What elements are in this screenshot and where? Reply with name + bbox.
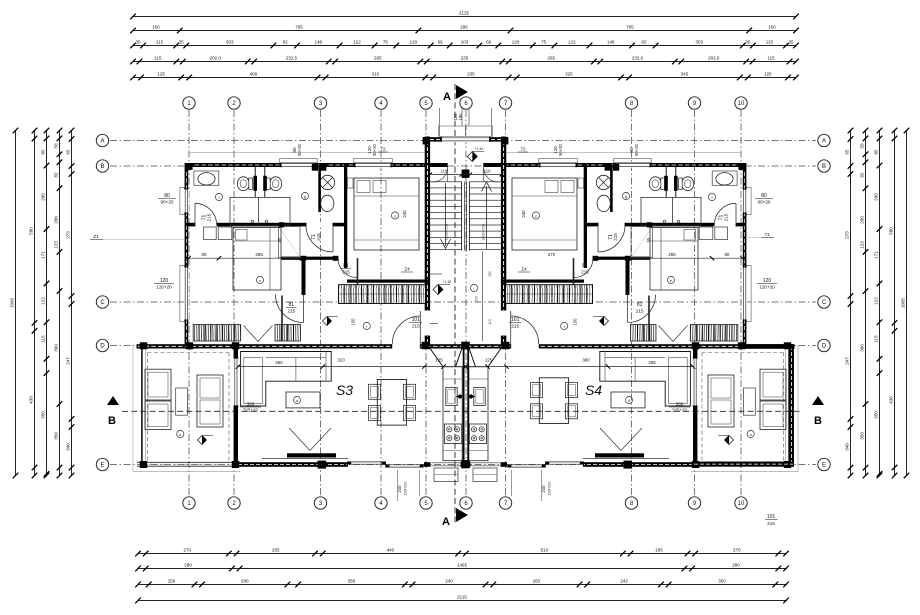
grid axis 3 top circle <box>314 97 326 109</box>
terrace lounge bench <box>197 375 223 427</box>
svg-text:81: 81 <box>637 302 643 308</box>
window left wall upper 80/90+20 <box>184 189 189 213</box>
dimension line top row5 <box>133 77 796 79</box>
terrace bottom wall thin <box>137 461 238 463</box>
grid axis A left circle <box>96 134 108 146</box>
svg-text:110: 110 <box>484 169 491 174</box>
door leaf and swing apartment entry <box>419 311 421 344</box>
svg-text:120+20: 120+20 <box>547 482 552 496</box>
svg-text:303: 303 <box>695 40 703 45</box>
window left wall lower 120/120+20 <box>184 267 189 320</box>
svg-text:35: 35 <box>179 40 185 45</box>
svg-text:C: C <box>100 300 105 306</box>
cistern left black <box>253 176 257 191</box>
wall vestibule (grid B through tower) <box>429 163 448 167</box>
svg-text:115: 115 <box>41 335 46 343</box>
svg-text:765: 765 <box>626 25 634 30</box>
terrace right top wall <box>740 344 794 349</box>
cistern right black <box>263 176 267 191</box>
room circled letter terrace right <box>747 430 754 437</box>
svg-text:D: D <box>100 344 105 350</box>
kitchen stove 4 burners <box>445 424 462 444</box>
svg-text:265: 265 <box>548 56 556 61</box>
kitchen counter strip <box>443 367 462 461</box>
column bottom divider <box>232 461 239 468</box>
svg-text:120+20: 120+20 <box>403 482 408 496</box>
dimension line left row2 <box>34 131 36 476</box>
svg-text:120: 120 <box>160 278 169 284</box>
svg-text:101: 101 <box>511 317 520 323</box>
svg-text:295: 295 <box>460 25 468 30</box>
dining table set S3 <box>377 380 406 426</box>
window top wall W2 120/90+20 <box>355 162 391 167</box>
wall bathroom3 west <box>318 165 321 212</box>
svg-text:325+20: 325+20 <box>243 408 258 413</box>
svg-text:273: 273 <box>66 231 71 239</box>
svg-text:81: 81 <box>343 263 349 269</box>
grid axis E right circle <box>818 458 830 470</box>
room circled letter bedroom1 left <box>391 212 398 219</box>
svg-text:350: 350 <box>860 432 865 440</box>
svg-text:255: 255 <box>648 360 656 365</box>
dimension line bottom row1 <box>138 553 786 555</box>
column bottom wall grid 3 <box>318 461 327 469</box>
sink counter bathroom1 <box>194 171 219 185</box>
svg-text:215: 215 <box>636 309 644 314</box>
column corridor wall east <box>333 256 339 261</box>
svg-text:103: 103 <box>461 40 469 45</box>
svg-text:303: 303 <box>226 40 234 45</box>
room circled letter bathroom1 left <box>215 193 222 200</box>
svg-text:B: B <box>108 415 116 427</box>
grid axis 3 vertical dash-dot line <box>320 110 322 496</box>
sliding glass door terrace divider <box>233 358 238 406</box>
svg-text:115: 115 <box>154 56 162 61</box>
grid axis E left circle <box>96 458 108 470</box>
svg-text:82: 82 <box>283 40 289 45</box>
window sill top wall W1 <box>280 159 318 163</box>
grid axis 9 top circle <box>688 97 700 109</box>
svg-text:340: 340 <box>845 443 850 451</box>
shower stalls back-to-back <box>230 197 290 225</box>
svg-text:247: 247 <box>845 357 850 365</box>
svg-text:+1,38: +1,38 <box>443 280 451 284</box>
shower head symbol bathroom3 <box>320 175 334 189</box>
grid axis 9 bottom circle <box>688 497 700 509</box>
dimension line right total 1095 <box>906 131 908 476</box>
grid axis 6 bottom circle <box>460 497 472 509</box>
svg-text:g: g <box>625 194 627 199</box>
svg-text:g: g <box>304 194 306 199</box>
svg-text:171: 171 <box>41 251 46 259</box>
svg-text:2125: 2125 <box>459 11 470 16</box>
closet 55 under bathroom2 <box>279 227 301 258</box>
eaves line above top wall <box>190 152 425 154</box>
svg-text:310: 310 <box>337 357 345 362</box>
window sill left wall lower <box>180 265 185 321</box>
wall bedroom1 bottom <box>347 280 430 283</box>
extension lines below bottom wall <box>397 470 399 501</box>
svg-text:215: 215 <box>316 233 321 241</box>
grid axis 5 top circle <box>420 97 432 109</box>
terrace left wall thin <box>141 345 143 466</box>
door gap bathroom3 <box>306 222 333 227</box>
svg-text:360: 360 <box>54 344 59 352</box>
stair stringer center walls <box>461 182 463 251</box>
svg-text:148: 148 <box>314 40 322 45</box>
column grid D axis2 <box>232 342 239 349</box>
stair hall partition line <box>482 251 484 341</box>
svg-text:75: 75 <box>383 40 389 45</box>
room circled letter bathroom2 right <box>622 192 629 199</box>
grid axis C left circle <box>96 296 108 308</box>
bedroom2 diamond level marker <box>323 317 332 326</box>
column bathroom wall end <box>279 222 284 227</box>
svg-text:50: 50 <box>54 143 59 149</box>
dimension line bottom row3 <box>138 584 786 586</box>
svg-text:580: 580 <box>29 227 34 235</box>
svg-text:+1,46: +1,46 <box>475 147 484 151</box>
svg-text:1465: 1465 <box>457 563 468 568</box>
section marker B right <box>812 396 824 405</box>
grid axis 10 bottom circle <box>735 497 747 509</box>
wall grid D (half) <box>137 344 467 348</box>
svg-text:180: 180 <box>458 113 463 121</box>
column bottom center <box>462 460 470 468</box>
svg-text:81: 81 <box>582 263 588 269</box>
grid axis 1 top circle <box>183 97 195 109</box>
svg-text:90+20: 90+20 <box>297 143 302 155</box>
svg-text:90+20: 90+20 <box>558 143 563 155</box>
svg-text:270: 270 <box>548 252 556 257</box>
svg-text:122: 122 <box>41 297 46 305</box>
svg-text:90+20: 90+20 <box>372 143 377 155</box>
grid axis 2 bottom circle <box>228 497 240 509</box>
svg-text:215: 215 <box>511 324 519 329</box>
door gap stair hall left wall <box>424 310 430 336</box>
svg-text:c: c <box>535 213 537 218</box>
svg-text:240: 240 <box>402 210 407 218</box>
svg-text:i: i <box>474 286 475 291</box>
column corridor wall west <box>301 256 306 261</box>
stair treads left flight <box>429 181 462 183</box>
dimension line bottom total 2115 <box>138 600 786 602</box>
svg-text:150: 150 <box>768 25 776 30</box>
column grid D terrace corner <box>140 342 147 349</box>
grid axis 6 vertical dash-dot line <box>465 110 467 496</box>
svg-text:150: 150 <box>573 318 578 326</box>
svg-text:115: 115 <box>874 335 879 343</box>
wall stair tower top (half) <box>425 137 466 141</box>
svg-text:200: 200 <box>41 193 46 201</box>
grid axis B horizontal dash-dot line <box>110 165 816 167</box>
room circled letter bedroom2 right <box>667 276 674 283</box>
door leaf+swing bedroom2 81/215 <box>276 295 304 323</box>
svg-text:215: 215 <box>581 270 589 275</box>
grid axis D right circle <box>818 339 830 351</box>
svg-text:S3: S3 <box>336 382 353 398</box>
svg-text:148: 148 <box>607 40 615 45</box>
vestibule door swing <box>433 167 448 182</box>
svg-text:90+20: 90+20 <box>634 143 639 155</box>
svg-text:273: 273 <box>845 231 850 239</box>
svg-text:340: 340 <box>66 443 71 451</box>
svg-text:1095: 1095 <box>10 297 15 308</box>
terrace ledge outline <box>132 345 134 472</box>
svg-text:B: B <box>822 164 826 170</box>
svg-text:280: 280 <box>241 579 249 584</box>
section marker B left <box>107 396 119 405</box>
svg-text:D: D <box>822 344 827 350</box>
grid axis 2 top circle <box>228 97 240 109</box>
svg-text:C: C <box>822 300 827 306</box>
svg-text:101: 101 <box>412 317 421 323</box>
terrace armchair 1 <box>145 369 171 400</box>
window stair tower top wall <box>441 137 466 143</box>
svg-text:440: 440 <box>387 548 395 553</box>
sofa living room L-shape <box>241 352 332 407</box>
grid axis A right circle <box>818 134 830 146</box>
svg-text:765: 765 <box>295 25 303 30</box>
grid axis 1 vertical dash-dot line <box>188 110 190 496</box>
stair arrow left flight down <box>445 183 447 246</box>
svg-text:125: 125 <box>485 357 493 362</box>
dimension line top row3 <box>133 45 796 47</box>
bed2 bedroom2 <box>233 228 281 291</box>
svg-text:242: 242 <box>620 579 628 584</box>
svg-text:80: 80 <box>761 193 767 199</box>
wall bottom stub at stair <box>424 462 431 467</box>
svg-text:235: 235 <box>467 72 475 77</box>
svg-text:283: 283 <box>533 579 541 584</box>
column top-left corner <box>186 163 193 170</box>
grid axis 8 bottom circle <box>625 497 637 509</box>
svg-text:265: 265 <box>255 252 263 257</box>
svg-text:265: 265 <box>374 56 382 61</box>
toilet WC1 <box>237 177 249 191</box>
svg-text:200: 200 <box>860 216 865 224</box>
TV cabinet black bar <box>287 453 336 457</box>
svg-text:115: 115 <box>767 56 775 61</box>
svg-text:125: 125 <box>435 357 443 362</box>
svg-text:E: E <box>100 463 104 469</box>
svg-text:115: 115 <box>488 319 492 325</box>
svg-text:66: 66 <box>486 40 492 45</box>
svg-text:400: 400 <box>250 72 258 77</box>
dining table set S4 <box>539 378 568 424</box>
dimension line top row4 <box>133 61 796 63</box>
wardrobe V symbol bedroom2 <box>244 326 273 342</box>
column bottom wall grid 8 <box>624 461 633 469</box>
svg-text:215: 215 <box>613 233 618 241</box>
dimension line left row4 <box>59 131 61 476</box>
svg-text:215: 215 <box>724 213 729 221</box>
TV legs <box>289 428 331 451</box>
svg-text:280: 280 <box>732 563 740 568</box>
svg-text:55: 55 <box>646 237 651 242</box>
grid axis 10 top circle <box>735 97 747 109</box>
svg-text:110: 110 <box>441 169 448 174</box>
bed1 bedroom1 <box>354 178 419 250</box>
svg-text:240: 240 <box>445 579 453 584</box>
nightstand b <box>218 227 232 240</box>
grid axis 8 vertical dash-dot line <box>631 110 633 496</box>
svg-text:71: 71 <box>764 232 770 238</box>
svg-text:150: 150 <box>488 271 492 277</box>
svg-text:122: 122 <box>353 40 361 45</box>
svg-text:216: 216 <box>767 521 775 526</box>
svg-text:35: 35 <box>788 40 794 45</box>
svg-text:325: 325 <box>565 72 573 77</box>
window sill left wall upper <box>180 187 185 214</box>
svg-text:270: 270 <box>183 548 191 553</box>
column vestibule center post <box>462 170 466 178</box>
sliding door bottom wall leaf2 <box>385 464 424 466</box>
svg-text:80: 80 <box>725 252 730 257</box>
sink basin ellipse <box>198 173 215 185</box>
radiator hatched bedroom2 right <box>275 325 301 342</box>
svg-text:55: 55 <box>277 237 282 242</box>
room circled letter hall right <box>561 322 568 329</box>
terrace small table <box>176 388 188 415</box>
stair hall circled label <box>470 284 477 291</box>
svg-text:72: 72 <box>380 147 386 152</box>
svg-text:E: E <box>822 463 826 469</box>
svg-text:50: 50 <box>860 143 865 149</box>
grid axis 4 top circle <box>375 97 387 109</box>
coffee table living room <box>286 392 320 408</box>
room circled letter living left <box>293 396 300 403</box>
wall bathrooms middle partition <box>254 167 256 197</box>
dimension line left row3 <box>46 131 48 476</box>
svg-text:235: 235 <box>461 56 469 61</box>
door leaf bedroom2 thick <box>281 296 283 342</box>
svg-text:65: 65 <box>66 149 71 155</box>
svg-text:Z1: Z1 <box>93 234 99 240</box>
column top wall pair <box>312 163 318 170</box>
svg-text:380: 380 <box>582 357 590 362</box>
svg-text:B: B <box>814 415 822 427</box>
wall bottom living room (grid E half) <box>238 462 348 467</box>
mirrored right half <box>461 108 798 482</box>
svg-text:240: 240 <box>541 485 546 493</box>
svg-text:215: 215 <box>207 213 212 221</box>
svg-text:A: A <box>442 516 450 528</box>
svg-text:247: 247 <box>66 357 71 365</box>
svg-text:66: 66 <box>438 40 444 45</box>
room circled letter living right <box>625 396 632 403</box>
svg-text:Z4: Z4 <box>521 267 527 272</box>
dimension line right row2 <box>865 131 867 476</box>
porch side lines above tower <box>439 108 441 136</box>
sliding door bottom wall leaf1 <box>347 461 386 463</box>
grid axis A horizontal dash-dot line <box>110 140 816 142</box>
svg-text:345: 345 <box>681 72 689 77</box>
svg-text:265: 265 <box>668 252 676 257</box>
grid axis 7 vertical dash-dot line <box>505 110 507 496</box>
dimension line right row4 <box>894 131 896 476</box>
grid axis 6 top circle <box>460 97 472 109</box>
svg-text:90+20: 90+20 <box>161 200 174 205</box>
svg-text:80: 80 <box>202 252 207 257</box>
room circled letter hall left <box>363 322 370 329</box>
grid axis 7 top circle <box>499 97 511 109</box>
svg-text:A: A <box>443 91 451 103</box>
svg-text:255: 255 <box>272 548 280 553</box>
bed1 side table <box>348 178 354 188</box>
grid axis C right circle <box>818 296 830 308</box>
svg-text:350: 350 <box>718 579 726 584</box>
svg-text:82: 82 <box>641 40 647 45</box>
svg-text:360: 360 <box>860 344 865 352</box>
svg-text:350: 350 <box>874 411 879 419</box>
svg-text:120+20: 120+20 <box>156 285 172 290</box>
grid axis D left circle <box>96 339 108 351</box>
svg-text:205: 205 <box>475 296 479 302</box>
svg-text:310: 310 <box>372 72 380 77</box>
wardrobe hatched corridor <box>339 285 426 304</box>
grid axis 5 vertical dash-dot line <box>425 110 427 496</box>
dimension line left row5 <box>71 131 73 476</box>
svg-text:255: 255 <box>275 360 283 365</box>
svg-text:150: 150 <box>351 318 356 326</box>
wall upper block top (grid B) <box>186 163 425 167</box>
column grid D stair left <box>422 342 430 349</box>
terrace canopy dashed inset <box>148 352 230 354</box>
svg-text:202,0: 202,0 <box>210 56 222 61</box>
window sill top wall W2 <box>354 159 393 163</box>
svg-text:101: 101 <box>767 514 776 520</box>
svg-text:82: 82 <box>860 172 865 178</box>
svg-text:125: 125 <box>764 72 772 77</box>
svg-text:d: d <box>296 398 298 403</box>
svg-text:171: 171 <box>874 251 879 259</box>
svg-text:85: 85 <box>874 149 879 155</box>
terrace right thick east wall <box>789 344 794 467</box>
svg-text:200: 200 <box>54 216 59 224</box>
grid axis 3 bottom circle <box>314 497 326 509</box>
svg-text:150: 150 <box>152 25 160 30</box>
svg-text:360: 360 <box>676 402 684 407</box>
section line A-A vertical dashed <box>454 84 456 525</box>
column grid D axis1 <box>186 342 193 349</box>
stair top diamond level marker <box>467 152 477 162</box>
svg-text:360: 360 <box>247 402 255 407</box>
grid axis 2 vertical dash-dot line <box>233 110 235 496</box>
svg-text:81: 81 <box>289 302 295 308</box>
window top wall W1 80/90+20 <box>281 162 316 167</box>
wall bedroom1 left (x345) <box>344 163 347 268</box>
toilet WC2 <box>270 177 282 191</box>
svg-text:280: 280 <box>184 563 192 568</box>
terrace armchair 2 <box>145 401 171 430</box>
wall exterior left (grid 1) <box>185 163 189 346</box>
door gap bathroom1 <box>195 222 217 227</box>
svg-text:35: 35 <box>136 40 142 45</box>
room circled letter bathroom1 right <box>708 193 715 200</box>
svg-text:123: 123 <box>860 241 865 249</box>
kitchen sink <box>446 388 457 406</box>
svg-text:215: 215 <box>342 270 350 275</box>
svg-text:1095: 1095 <box>901 297 906 308</box>
grid axis 9 vertical dash-dot line <box>694 110 696 496</box>
svg-text:82: 82 <box>54 172 59 178</box>
svg-text:232,5: 232,5 <box>286 56 298 61</box>
svg-text:75: 75 <box>541 40 547 45</box>
svg-text:120: 120 <box>512 40 520 45</box>
stair arrow right flight head up <box>486 186 488 249</box>
svg-text:122: 122 <box>874 297 879 305</box>
